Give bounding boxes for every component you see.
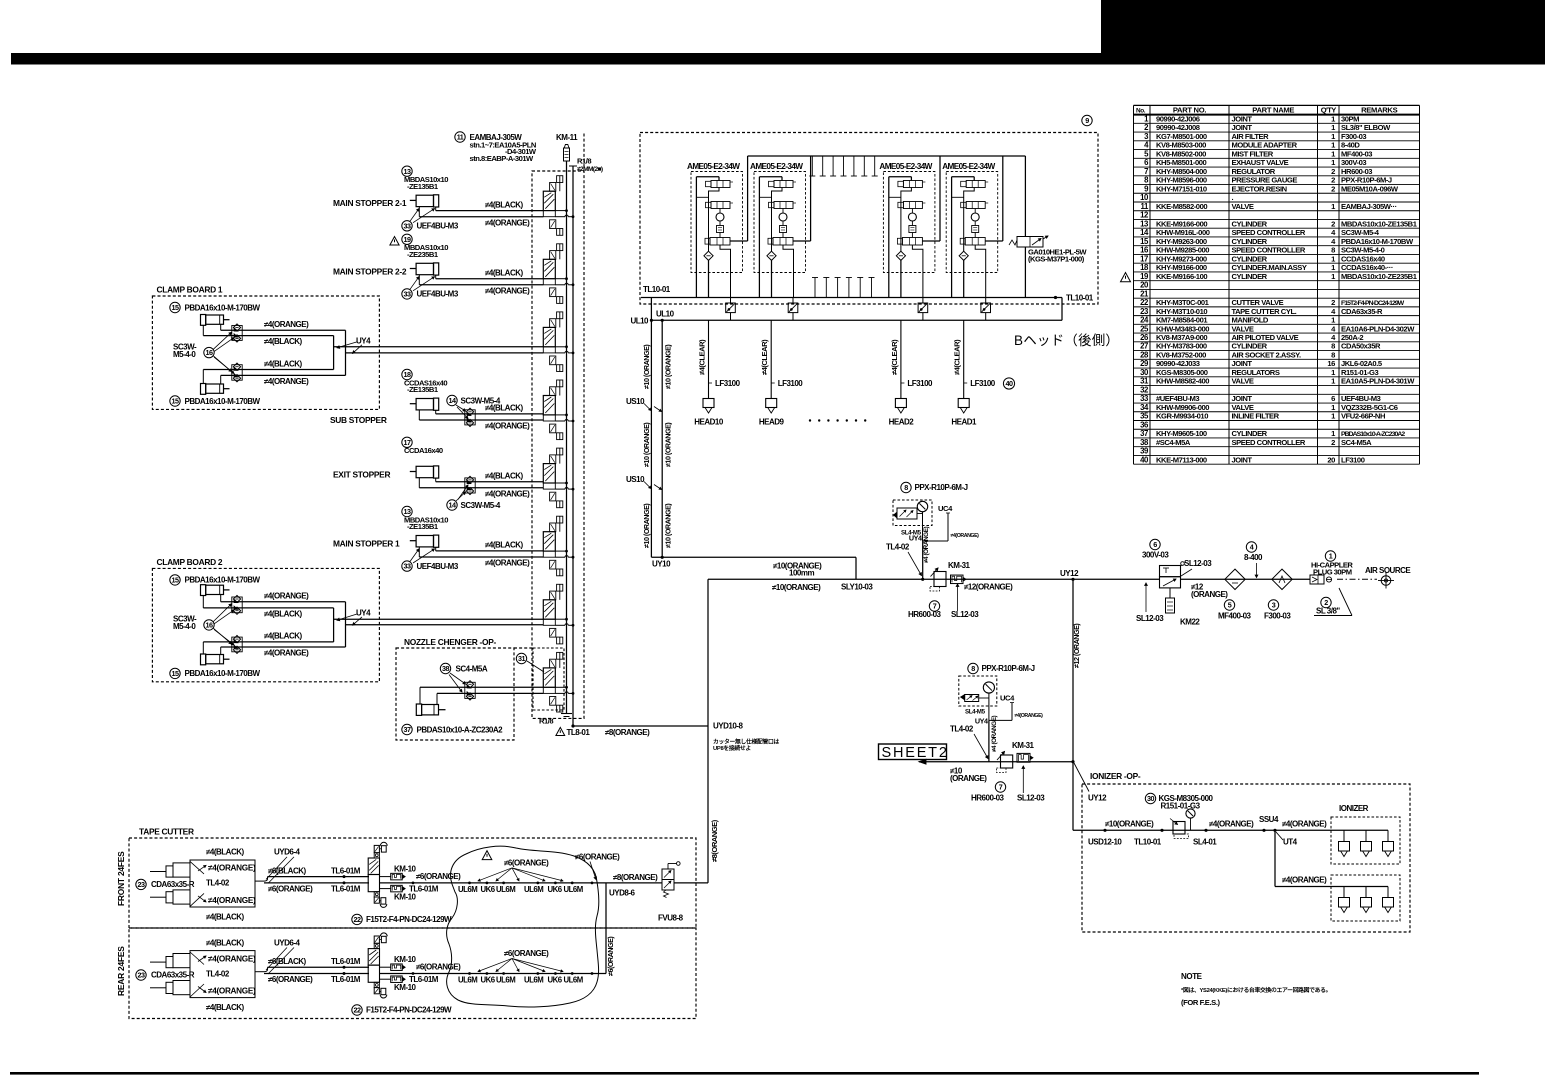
cylinder PBDAS10x10 nozzle changer <box>402 704 503 735</box>
svg-text:23: 23 <box>138 971 145 980</box>
main air line SLY10-03 <box>708 578 1160 580</box>
svg-text:VFU2-66P-NH: VFU2-66P-NH <box>1341 412 1385 421</box>
wire UYD8-6 drop front to rear <box>606 883 636 976</box>
wire gauge1 to main line <box>922 541 924 579</box>
svg-text:≠4(ORANGE): ≠4(ORANGE) <box>264 320 309 329</box>
wire #6(BLACK) front <box>255 866 369 881</box>
head drop lines and heads <box>694 320 996 426</box>
svg-text:≠4(ORANGE): ≠4(ORANGE) <box>208 896 256 905</box>
svg-text:31: 31 <box>518 654 525 663</box>
svg-text:IONIZER: IONIZER <box>1339 804 1369 813</box>
svg-text:≠4(ORANGE): ≠4(ORANGE) <box>208 987 256 996</box>
regulator R151-01-G3 (balloon 30) <box>1145 793 1213 838</box>
svg-text:CDA63x35-R: CDA63x35-R <box>1341 307 1383 316</box>
svg-text:UK6: UK6 <box>548 976 563 985</box>
svg-text:SPEED CONTROLLER: SPEED CONTROLLER <box>1232 228 1306 237</box>
svg-text:KV8-M3752-000: KV8-M3752-000 <box>1156 350 1206 359</box>
svg-text:IONIZER -OP-: IONIZER -OP- <box>1090 771 1141 781</box>
svg-text:MBDAS10x10-ZE235B1: MBDAS10x10-ZE235B1 <box>1341 272 1418 281</box>
svg-text:≠4(BLACK): ≠4(BLACK) <box>485 200 524 209</box>
svg-text:TL4-02: TL4-02 <box>206 879 230 888</box>
svg-text:CYLINDER: CYLINDER <box>1232 429 1268 438</box>
svg-text:VALVE: VALVE <box>1232 324 1254 333</box>
svg-text:30: 30 <box>1147 794 1154 803</box>
svg-text:KHW-M916L-000: KHW-M916L-000 <box>1156 228 1210 237</box>
svg-text:KKE-M7113-000: KKE-M7113-000 <box>1156 455 1207 464</box>
speed controller KM-10 lower front <box>380 885 439 902</box>
svg-text:JOINT: JOINT <box>1232 455 1253 464</box>
svg-text:8: 8 <box>1331 246 1335 255</box>
svg-text:27: 27 <box>1140 342 1148 351</box>
wire CLAMP BOARD 2 black pair out <box>334 618 544 620</box>
valve station AME05-E2-34W (x+192.4) <box>879 156 940 298</box>
svg-text:TL10-01: TL10-01 <box>643 285 671 294</box>
svg-text:UT4: UT4 <box>1283 838 1298 847</box>
svg-text:KM-10: KM-10 <box>394 983 417 992</box>
svg-text:11: 11 <box>1141 202 1150 211</box>
speed controllers SC3W-M5-4 on SUB STOPPER lines <box>447 395 501 426</box>
svg-text:AIR SOURCE: AIR SOURCE <box>1365 566 1411 575</box>
rail 1 end plug <box>561 713 572 715</box>
svg-text:14: 14 <box>449 396 456 405</box>
svg-text:PBDA16x10-M-170BW: PBDA16x10-M-170BW <box>185 669 261 678</box>
svg-text:LF3100: LF3100 <box>1341 455 1365 464</box>
svg-text:SC4-M5A: SC4-M5A <box>456 665 488 674</box>
wire MAIN STOPPER 1 #4(ORANGE) <box>419 556 543 558</box>
wire nozzle changer lower <box>437 693 543 704</box>
svg-text:UP8を接続せよ: UP8を接続せよ <box>713 744 751 752</box>
svg-text:Q'TY: Q'TY <box>1321 105 1337 114</box>
svg-text:30PM: 30PM <box>1341 115 1359 124</box>
svg-text:≠6(ORANGE): ≠6(ORANGE) <box>416 872 461 881</box>
svg-text:≠8(ORANGE): ≠8(ORANGE) <box>710 819 719 862</box>
svg-text:14: 14 <box>449 501 456 510</box>
regulator HR600-03 no.1 <box>908 568 946 619</box>
svg-text:No.: No. <box>1136 107 1146 114</box>
svg-text:≠4(ORANGE): ≠4(ORANGE) <box>1015 713 1044 719</box>
svg-text:≠6(ORANGE): ≠6(ORANGE) <box>504 949 549 958</box>
svg-text:26: 26 <box>1140 333 1149 342</box>
svg-text:≠4(CLEAR): ≠4(CLEAR) <box>953 339 962 375</box>
ionizer feed line <box>1073 762 1388 832</box>
svg-text:≠4(CLEAR): ≠4(CLEAR) <box>890 339 899 375</box>
SL12-03 pointer 3 <box>1017 766 1045 803</box>
TL4-02 pointer 1 <box>886 543 922 576</box>
air sockets KV8-M3752 <box>726 298 991 321</box>
speed controller KM-10 lower rear <box>380 975 439 992</box>
svg-text:EXHAUST VALVE: EXHAUST VALVE <box>1232 158 1289 167</box>
air piloted valve GA010HE1-PL-5W <box>1009 156 1087 298</box>
svg-text:SC3W-M5-4: SC3W-M5-4 <box>1341 228 1380 237</box>
wire CLAMP BOARD 2 orange pair out <box>346 624 544 626</box>
svg-text:17: 17 <box>1140 254 1148 263</box>
svg-text:F15T2-F4-PN-DC24-129W: F15T2-F4-PN-DC24-129W <box>366 915 452 924</box>
valve 31 dashed enclosure <box>533 648 564 710</box>
svg-text:NOTE: NOTE <box>1181 972 1203 981</box>
svg-text:≠4(BLACK): ≠4(BLACK) <box>206 1003 245 1012</box>
svg-text:VALVE: VALVE <box>1232 202 1254 211</box>
svg-text:PBDA16x10-M-170BW: PBDA16x10-M-170BW <box>185 397 261 406</box>
svg-text:MF400-03: MF400-03 <box>1341 149 1372 158</box>
svg-text:SL4-M5: SL4-M5 <box>965 709 986 716</box>
svg-text:MANIFOLD: MANIFOLD <box>1232 316 1269 325</box>
svg-text:JOINT: JOINT <box>1232 115 1253 124</box>
svg-text:CDA63x35-R: CDA63x35-R <box>151 880 195 889</box>
svg-text:HEAD10: HEAD10 <box>694 418 724 427</box>
svg-text:PART NO.: PART NO. <box>1173 105 1207 114</box>
svg-text:≠4(ORANGE): ≠4(ORANGE) <box>1209 820 1254 829</box>
nozzle changer dashed box <box>396 648 514 740</box>
speed controller KM-10 upper rear <box>380 955 417 970</box>
svg-text:UEF4BU-M3: UEF4BU-M3 <box>417 290 459 299</box>
svg-text:≠4(BLACK): ≠4(BLACK) <box>206 912 245 921</box>
svg-text:KKE-M8582-000: KKE-M8582-000 <box>1156 202 1207 211</box>
svg-text:KV8-M37A9-000: KV8-M37A9-000 <box>1156 333 1207 342</box>
svg-text:NOZZLE CHENGER -OP-: NOZZLE CHENGER -OP- <box>404 637 497 647</box>
svg-text:≠4(ORANGE): ≠4(ORANGE) <box>264 592 309 601</box>
cylinder group EXIT STOPPER <box>333 437 543 498</box>
svg-text:2: 2 <box>1331 438 1335 447</box>
svg-text:SLY10-03: SLY10-03 <box>841 583 873 592</box>
svg-text:JOINT: JOINT <box>1232 359 1253 368</box>
svg-text:PPX-R10P-6M-J: PPX-R10P-6M-J <box>1341 176 1392 185</box>
manifold valves 1-8 <box>543 176 574 712</box>
svg-text:KM-10: KM-10 <box>394 864 417 873</box>
svg-text:UL10: UL10 <box>630 317 649 326</box>
svg-text:≠4(ORANGE): ≠4(ORANGE) <box>264 649 309 658</box>
svg-text:7: 7 <box>999 783 1003 792</box>
svg-text:≠6(ORANGE): ≠6(ORANGE) <box>416 963 461 972</box>
svg-text:≠4(BLACK): ≠4(BLACK) <box>206 938 245 947</box>
svg-text:SPEED CONTROLLER: SPEED CONTROLLER <box>1232 438 1306 447</box>
phi6 fan pointers rear <box>478 949 563 972</box>
svg-text:≠4(ORANGE): ≠4(ORANGE) <box>1282 876 1327 885</box>
svg-text:3: 3 <box>1272 601 1276 610</box>
svg-text:7: 7 <box>1144 167 1148 176</box>
svg-text:PPX-R10P-6M-J: PPX-R10P-6M-J <box>915 483 968 492</box>
svg-text:8: 8 <box>1331 350 1335 359</box>
svg-text:AME05-E2-34W: AME05-E2-34W <box>687 162 740 171</box>
svg-text:KGS-M8305-000: KGS-M8305-000 <box>1156 368 1208 377</box>
ionizer bank 2 <box>1275 830 1400 921</box>
svg-text:KHY-M8504-000: KHY-M8504-000 <box>1156 167 1207 176</box>
svg-text:40: 40 <box>1006 379 1013 388</box>
manifold supply rail 1 <box>566 161 568 713</box>
svg-text:AME05-E2-34W: AME05-E2-34W <box>750 162 803 171</box>
svg-text:JKL6-02A0.5: JKL6-02A0.5 <box>1341 359 1383 368</box>
svg-text:≠6(ORANGE): ≠6(ORANGE) <box>268 975 313 984</box>
svg-text:FRONT 24FES: FRONT 24FES <box>116 851 126 906</box>
svg-text:VALVE: VALVE <box>1232 403 1254 412</box>
svg-text:UY12: UY12 <box>1060 569 1079 578</box>
valve station AME05-E2-34W (x+0) <box>687 156 748 298</box>
svg-text:-ZE235B1: -ZE235B1 <box>407 250 439 259</box>
svg-text:≠4(ORANGE): ≠4(ORANGE) <box>485 218 530 227</box>
silencer KM-11 <box>556 133 578 161</box>
svg-text:37: 37 <box>404 725 411 734</box>
warning triangle tape cutter <box>482 851 492 860</box>
B-head top supply line <box>748 155 1026 157</box>
svg-text:REAR 24FES: REAR 24FES <box>116 946 126 996</box>
svg-text:UL6M: UL6M <box>496 976 515 985</box>
svg-text:KHY-M9273-000: KHY-M9273-000 <box>1156 254 1207 263</box>
svg-text:PBDA16x10-M-170BW: PBDA16x10-M-170BW <box>185 576 261 585</box>
parts table <box>1134 105 1420 464</box>
svg-text:F300-03: F300-03 <box>1264 612 1291 621</box>
svg-text:UY12: UY12 <box>1088 794 1107 803</box>
svg-text:31: 31 <box>1140 377 1149 386</box>
ellipsis dots between heads <box>809 419 867 421</box>
svg-text:Bヘッド（後側）: Bヘッド（後側） <box>1014 333 1119 348</box>
svg-text:FVU8-8: FVU8-8 <box>658 914 684 923</box>
svg-text:ME05M10A-096W: ME05M10A-096W <box>1341 184 1399 193</box>
wire gauge2 to sheet2 line <box>988 720 990 761</box>
svg-text:250A-2: 250A-2 <box>1341 333 1363 342</box>
svg-text:UL6M: UL6M <box>524 885 543 894</box>
svg-text:≠4(ORANGE): ≠4(ORANGE) <box>1282 820 1327 829</box>
wire MAIN STOPPER 2-2 #4(ORANGE) <box>419 284 543 286</box>
valve station AME05-E2-34W (x+63) <box>750 156 811 298</box>
exhaust valve FVU8-8 <box>658 862 684 923</box>
svg-text:KHW-M9285-000: KHW-M9285-000 <box>1156 246 1209 255</box>
svg-text:33: 33 <box>404 221 411 230</box>
main hose line front <box>380 882 709 885</box>
svg-text:13: 13 <box>1140 219 1149 228</box>
svg-text:LF3100: LF3100 <box>907 379 933 388</box>
svg-text:REGULATORS: REGULATORS <box>1232 368 1280 377</box>
wire UC4 branch 1 <box>923 504 979 541</box>
balloon 31 pointer to valve 8 <box>516 653 526 663</box>
speed controllers SC3W of CLAMP BOARD 1 <box>173 324 242 382</box>
svg-text:#SC4-M5A: #SC4-M5A <box>1156 438 1191 447</box>
svg-text:≠4(ORANGE): ≠4(ORANGE) <box>208 864 256 873</box>
svg-text:LF3100: LF3100 <box>715 379 741 388</box>
svg-text:UL6M: UL6M <box>524 976 543 985</box>
labels phi10 orange sheet2 <box>950 767 987 784</box>
svg-text:SL 3/8": SL 3/8" <box>1316 607 1340 616</box>
svg-text:30: 30 <box>1140 368 1149 377</box>
svg-text:SL12-03: SL12-03 <box>1184 559 1212 568</box>
svg-text:≠4(BLACK): ≠4(BLACK) <box>264 632 303 641</box>
svg-text:SL12-03: SL12-03 <box>1136 614 1164 623</box>
cylinder PBDA16x10 upper of CLAMP BOARD 1 <box>170 302 261 325</box>
US10 pointer 2 <box>626 475 662 490</box>
svg-text:≠4(BLACK): ≠4(BLACK) <box>485 472 524 481</box>
svg-text:HEAD1: HEAD1 <box>951 418 977 427</box>
svg-text:stn.8:EABP-A-301W: stn.8:EABP-A-301W <box>470 154 535 163</box>
svg-text:2: 2 <box>1331 184 1335 193</box>
svg-text:≠4(ORANGE): ≠4(ORANGE) <box>485 286 530 295</box>
cylinder group MAIN STOPPER 2-2 <box>333 234 543 299</box>
svg-text:US10: US10 <box>626 397 645 406</box>
svg-text:300V-03: 300V-03 <box>1341 158 1366 167</box>
svg-text:-ZE135B1: -ZE135B1 <box>407 522 439 531</box>
svg-text:32: 32 <box>1140 385 1149 394</box>
svg-text:UL10: UL10 <box>656 310 675 319</box>
svg-text:28: 28 <box>1140 350 1149 359</box>
svg-text:KG7-M8501-000: KG7-M8501-000 <box>1156 132 1207 141</box>
svg-text:EA10A6-PLN-D4-302W: EA10A6-PLN-D4-302W <box>1341 324 1415 333</box>
svg-text:UL6M: UL6M <box>564 885 583 894</box>
wire MAIN STOPPER 2-1 #4(ORANGE) <box>419 216 543 218</box>
svg-text:≠10 (ORANGE): ≠10 (ORANGE) <box>642 503 651 548</box>
svg-text:KHY-M9263-000: KHY-M9263-000 <box>1156 237 1207 246</box>
svg-text:CCDAS16x40: CCDAS16x40 <box>1341 254 1385 263</box>
speed controller KM-10 upper front <box>380 864 417 879</box>
svg-text:29: 29 <box>1140 359 1149 368</box>
svg-text:SL12-03: SL12-03 <box>951 610 979 619</box>
wire #6(BLACK) rear <box>255 957 369 972</box>
svg-text:21: 21 <box>1140 289 1149 298</box>
svg-text:39: 39 <box>1140 447 1149 456</box>
svg-text:≠6(BLACK): ≠6(BLACK) <box>268 866 307 875</box>
speed controllers SC4-M5A <box>440 663 488 700</box>
svg-text:35: 35 <box>1140 412 1149 421</box>
regulator HR600-03 no.2 <box>971 752 1013 803</box>
svg-text:≠10 (ORANGE): ≠10 (ORANGE) <box>642 344 651 389</box>
mist filter MF400-03 (balloon 5) <box>1218 569 1252 620</box>
svg-text:MIST FILTER: MIST FILTER <box>1232 149 1274 158</box>
svg-text:≠4(BLACK): ≠4(BLACK) <box>264 337 303 346</box>
svg-text:KM-31: KM-31 <box>948 561 971 570</box>
dashed box CLAMP BOARD 1 <box>152 296 379 409</box>
svg-text:≠6(ORANGE): ≠6(ORANGE) <box>606 936 615 976</box>
svg-text:≠10 (ORANGE): ≠10 (ORANGE) <box>642 422 651 467</box>
svg-text:22: 22 <box>354 1006 361 1015</box>
svg-text:R151-01-G3: R151-01-G3 <box>1161 802 1201 811</box>
top plugged ports comb <box>809 156 877 176</box>
svg-text:CUTTER VALVE: CUTTER VALVE <box>1232 298 1284 307</box>
svg-text:9: 9 <box>1085 116 1089 125</box>
svg-text:PBDA16x10-M-170BW: PBDA16x10-M-170BW <box>1341 237 1414 246</box>
svg-text:≠4(BLACK): ≠4(BLACK) <box>485 541 524 550</box>
svg-text:SUB STOPPER: SUB STOPPER <box>330 415 387 425</box>
svg-text:SL12-03: SL12-03 <box>1017 794 1045 803</box>
svg-text:KHY-M9166-000: KHY-M9166-000 <box>1156 263 1207 272</box>
svg-text:15: 15 <box>172 575 179 584</box>
svg-text:UYD6-4: UYD6-4 <box>274 938 301 947</box>
svg-text:≠12 (ORANGE): ≠12 (ORANGE) <box>1072 623 1081 668</box>
svg-text:25: 25 <box>1140 324 1149 333</box>
svg-text:UYD8-6: UYD8-6 <box>609 888 636 897</box>
svg-text:≠12(ORANGE): ≠12(ORANGE) <box>964 583 1013 592</box>
svg-text:MAIN STOPPER 1: MAIN STOPPER 1 <box>333 539 400 549</box>
tape cutter cylinders CDA63x35-R rear <box>136 938 256 1012</box>
svg-text:TL4-02: TL4-02 <box>886 543 910 552</box>
svg-text:19: 19 <box>1140 272 1149 281</box>
svg-text:22: 22 <box>354 915 361 924</box>
wire MAIN STOPPER 2-2 #4(BLACK) <box>436 278 544 280</box>
svg-text:TL6-01M: TL6-01M <box>331 975 361 984</box>
svg-text:USD12-10: USD12-10 <box>1088 838 1122 847</box>
svg-text:CYLINDER: CYLINDER <box>1232 237 1268 246</box>
svg-text:90990-42J006: 90990-42J006 <box>1156 115 1200 124</box>
svg-text:PRESSURE GAUGE: PRESSURE GAUGE <box>1232 176 1298 185</box>
main air line after exhaust valve <box>1181 578 1311 580</box>
svg-text:40: 40 <box>1140 455 1149 464</box>
SL12-03 pointer 1 <box>951 584 979 619</box>
cylinder group MAIN STOPPER 1 <box>333 506 543 571</box>
svg-text:KM-11: KM-11 <box>556 133 578 142</box>
note block <box>1181 972 1331 1007</box>
svg-text:KM-10: KM-10 <box>394 892 417 901</box>
svg-text:(ORANGE): (ORANGE) <box>1191 590 1228 599</box>
svg-text:≠4(ORANGE): ≠4(ORANGE) <box>485 422 530 431</box>
svg-text:1: 1 <box>1329 552 1333 561</box>
junction UY12 <box>1060 569 1079 581</box>
svg-text:≠6(ORANGE): ≠6(ORANGE) <box>268 885 313 894</box>
svg-text:CLAMP BOARD 1: CLAMP BOARD 1 <box>157 285 223 295</box>
svg-text:AME05-E2-34W: AME05-E2-34W <box>942 162 995 171</box>
svg-text:TL6-01M: TL6-01M <box>409 975 439 984</box>
labels CLAMP BOARD 2 <box>264 592 371 658</box>
svg-text:UEF4BU-M3: UEF4BU-M3 <box>417 562 459 571</box>
svg-text:18: 18 <box>1140 263 1149 272</box>
svg-text:SC3W-M5-4-0: SC3W-M5-4-0 <box>1341 246 1385 255</box>
svg-text:REGULATOR: REGULATOR <box>1232 167 1276 176</box>
valve manifold dashed enclosure <box>532 171 584 718</box>
svg-text:HEAD9: HEAD9 <box>759 418 785 427</box>
cylinder group MAIN STOPPER 2-1 <box>333 166 543 231</box>
svg-text:HR600-03: HR600-03 <box>1341 167 1372 176</box>
svg-text:PBDA16x10-M-170BW: PBDA16x10-M-170BW <box>185 303 261 312</box>
svg-text:37: 37 <box>1140 429 1148 438</box>
svg-text:MAIN STOPPER 2-1: MAIN STOPPER 2-1 <box>333 198 407 208</box>
svg-text:2: 2 <box>1331 167 1335 176</box>
svg-text:38: 38 <box>1140 438 1149 447</box>
SL12-03 pointer 2 <box>1136 583 1164 623</box>
svg-text:SC3W-M5-4: SC3W-M5-4 <box>461 397 501 406</box>
svg-text:KGR-M9934-010: KGR-M9934-010 <box>1156 412 1208 421</box>
svg-text:TL10-01: TL10-01 <box>1066 294 1094 303</box>
svg-text:KH5-M8501-000: KH5-M8501-000 <box>1156 158 1207 167</box>
ionizer line labels <box>1088 815 1327 847</box>
svg-text:≠4(BLACK): ≠4(BLACK) <box>206 848 245 857</box>
svg-text:KKE-M9166-000: KKE-M9166-000 <box>1156 219 1207 228</box>
svg-text:JOINT: JOINT <box>1232 394 1253 403</box>
svg-text:11: 11 <box>457 133 464 142</box>
US10 pointer 1 <box>626 397 662 412</box>
svg-text:LF3100: LF3100 <box>970 379 996 388</box>
svg-text:UK6: UK6 <box>548 885 563 894</box>
svg-text:INLINE FILTER: INLINE FILTER <box>1232 412 1280 421</box>
module adapter 8-400 (balloon 4) <box>1244 542 1263 578</box>
air filter F300-03 (balloon 3) <box>1264 569 1292 620</box>
svg-text:(KGS-M37P1-000): (KGS-M37P1-000) <box>1028 255 1085 264</box>
svg-text:UC4: UC4 <box>938 504 953 513</box>
svg-text:HR600-03: HR600-03 <box>908 610 942 619</box>
svg-text:KM-10: KM-10 <box>394 955 417 964</box>
balloon 22 rear <box>352 1005 452 1015</box>
svg-text:16: 16 <box>1327 359 1335 368</box>
svg-text:24: 24 <box>1140 316 1149 325</box>
svg-text:≠4(BLACK): ≠4(BLACK) <box>264 359 303 368</box>
svg-text:≠10(ORANGE): ≠10(ORANGE) <box>1105 820 1154 829</box>
svg-text:カッター無し仕様配管口は: カッター無し仕様配管口は <box>713 738 779 746</box>
svg-text:≠4(ORANGE): ≠4(ORANGE) <box>951 533 980 539</box>
svg-text:MODULE ADAPTER: MODULE ADAPTER <box>1232 141 1298 150</box>
svg-text:SC4-M5A: SC4-M5A <box>1341 438 1372 447</box>
dashed box CLAMP BOARD 2 <box>152 568 379 681</box>
svg-text:≠8(ORANGE): ≠8(ORANGE) <box>605 728 650 737</box>
riser labels <box>642 344 673 548</box>
svg-text:UY4: UY4 <box>356 336 371 345</box>
pressure gauge PPX 2 (balloon 8) <box>959 663 1035 725</box>
svg-text:TL4-02: TL4-02 <box>950 725 974 734</box>
svg-text:90990-42J033: 90990-42J033 <box>1156 359 1200 368</box>
svg-text:VQZ332B-5G1-C6: VQZ332B-5G1-C6 <box>1341 403 1398 412</box>
svg-text:CYLINDER: CYLINDER <box>1232 272 1268 281</box>
